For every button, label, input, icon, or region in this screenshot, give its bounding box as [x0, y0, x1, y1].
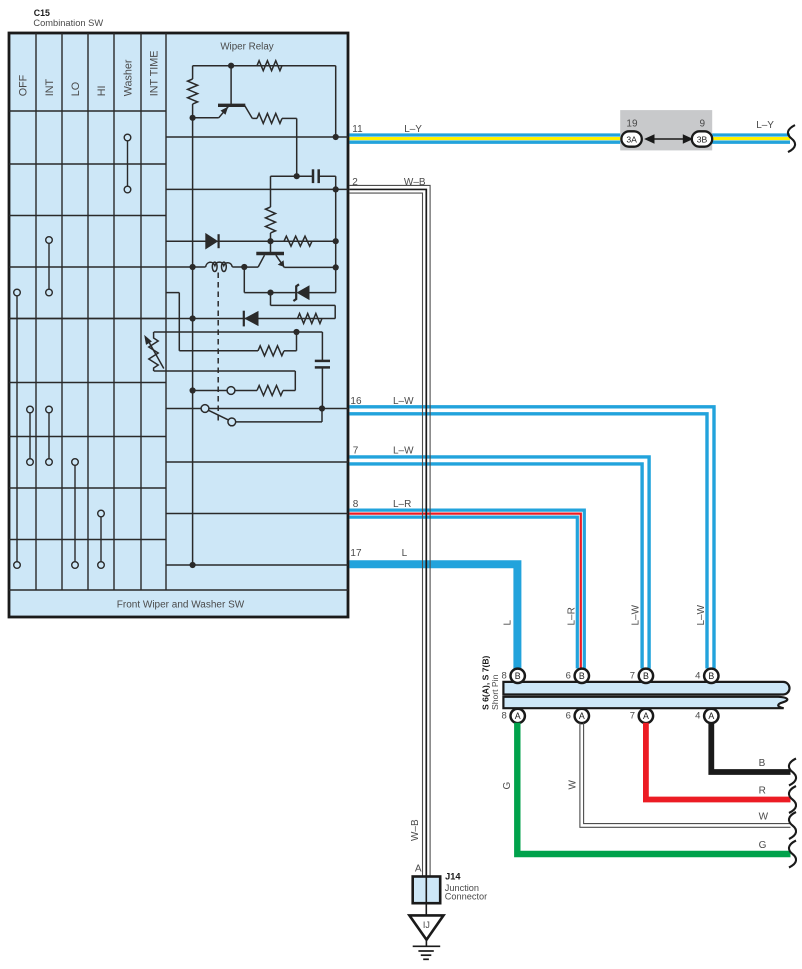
resistor relay d2-row [298, 314, 322, 324]
wire diode D1 row [166, 240, 336, 242]
svg-text:Connector: Connector [445, 891, 487, 901]
resistor relay d1-row [284, 236, 312, 246]
connector junction block gray [620, 110, 712, 150]
pin 4B terminal [704, 669, 718, 683]
transistor Q1 collector diagonal [245, 106, 257, 119]
resistor relay top [257, 61, 282, 71]
svg-text:C15: C15 [34, 8, 50, 18]
node coil right junction [241, 264, 247, 270]
svg-text:W: W [759, 812, 769, 823]
wire int contact to resistor [235, 390, 257, 392]
svg-text:Wiper Relay: Wiper Relay [220, 42, 273, 53]
wire pin 16 line [166, 408, 348, 410]
resistor relay q1-collector [257, 113, 282, 123]
svg-text:8: 8 [353, 499, 359, 510]
transistor Q2 base lead [270, 241, 272, 253]
wire vert resistor bottom lead [270, 233, 272, 241]
inductor relay coil [206, 262, 233, 271]
connector terminal 3A [621, 131, 641, 146]
wire var-res top line [154, 331, 323, 333]
svg-text:Combination SW: Combination SW [33, 18, 103, 28]
ground symbol [413, 940, 441, 960]
contact LO position [74, 462, 76, 565]
node D1 row right junction [333, 238, 339, 244]
svg-text:L–R: L–R [566, 607, 577, 625]
wire pin 11 line [166, 136, 348, 138]
arrow pair connector [644, 134, 693, 144]
wire var-res bottom line [154, 371, 296, 391]
break symbol G end [789, 841, 796, 868]
switch table row lines [9, 111, 166, 540]
node D2 row bus junction [190, 315, 196, 321]
wire L-W pin7 [350, 457, 650, 669]
transistor Q2 emitter lead [276, 255, 336, 267]
wire dashed relay link [217, 273, 219, 422]
resistor relay intermittent [257, 386, 283, 396]
svg-text:OFF: OFF [18, 74, 30, 96]
wire J14 to IJ [425, 903, 427, 915]
node pin11 junction [333, 134, 339, 140]
wire coil row left [166, 266, 206, 268]
wire int resistor lead [283, 390, 295, 392]
wire pin 8 line [166, 513, 348, 515]
wire relay top rail [193, 65, 336, 67]
node zener left junction [267, 290, 273, 296]
switch table label row line [9, 589, 348, 591]
svg-text:INT: INT [44, 79, 56, 97]
svg-text:L–R: L–R [393, 499, 411, 510]
svg-text:2: 2 [352, 177, 358, 188]
svg-text:W: W [568, 780, 579, 790]
ground IJ triangle [409, 915, 443, 939]
svg-text:A: A [708, 711, 714, 721]
wire R red [646, 723, 791, 800]
svg-text:B: B [579, 671, 585, 681]
wire pin 2 line [166, 188, 348, 190]
connector J14 box [413, 877, 441, 904]
svg-text:LO: LO [70, 82, 82, 96]
pin 4A terminal [704, 709, 718, 723]
wire timing res to node [284, 332, 297, 351]
svg-text:6: 6 [566, 671, 571, 682]
svg-text:7: 7 [630, 711, 635, 722]
wire W-B [350, 185, 431, 876]
busbar short pin [503, 682, 789, 708]
node Q2 emitter junction [333, 264, 339, 270]
svg-text:A: A [643, 711, 649, 721]
svg-text:L–Y: L–Y [756, 120, 774, 131]
wire pin 7 line [166, 461, 348, 463]
break symbol R end [789, 786, 796, 813]
contact OFF-INT pair left [29, 410, 31, 463]
switch table relay boundary [165, 33, 167, 590]
svg-text:L: L [502, 620, 513, 626]
pin 6A terminal [575, 709, 589, 723]
wire L-W pin16 [350, 407, 715, 669]
wire q2 to zener [244, 267, 270, 293]
resistor relay vertical [266, 207, 276, 233]
pin 7B terminal [639, 669, 653, 683]
break symbol L-Y end [788, 125, 795, 152]
wire L-Y [350, 135, 791, 142]
capacitor C1 [297, 169, 336, 189]
connector terminal 3B [692, 131, 712, 146]
svg-text:R: R [759, 786, 766, 797]
svg-text:L: L [402, 548, 408, 559]
contact Washer position [127, 138, 129, 190]
contact HI position [100, 514, 102, 566]
transistor Q2 collector diagonal [244, 255, 264, 267]
wire W white [580, 723, 791, 828]
wire B black [711, 723, 790, 772]
node pin17 bus junction [190, 562, 196, 568]
wire notch from boundary [166, 293, 258, 351]
svg-text:B: B [643, 671, 649, 681]
svg-text:L–W: L–W [393, 446, 414, 457]
node bus top junction [190, 115, 196, 121]
svg-text:Short Pin: Short Pin [490, 674, 500, 710]
svg-text:J14: J14 [445, 872, 461, 882]
wire left resistor top lead [192, 66, 194, 79]
contact INT position lower [48, 410, 50, 463]
svg-text:19: 19 [626, 119, 638, 130]
wire q1 resistor to cap corner [282, 118, 297, 176]
column labels OFF INT LO HI Washer INT TIME [18, 51, 161, 97]
pin 6B terminal [575, 669, 589, 683]
svg-text:B: B [515, 671, 521, 681]
svg-text:17: 17 [350, 548, 362, 559]
diode D1 [205, 233, 218, 250]
pin 8B terminal [511, 669, 525, 683]
svg-text:7: 7 [353, 446, 359, 457]
svg-text:L–W: L–W [696, 604, 707, 625]
transistor Q1 base bar [218, 104, 245, 107]
wire pin 17 line [166, 564, 348, 566]
svg-text:4: 4 [695, 711, 700, 722]
diode D2 [244, 311, 259, 327]
svg-text:INT TIME: INT TIME [149, 51, 161, 97]
wire top-right drop [335, 66, 337, 137]
break symbol W end [789, 812, 796, 839]
svg-text:3A: 3A [626, 134, 637, 144]
svg-text:4: 4 [695, 671, 700, 682]
node int row bus junction [190, 387, 196, 393]
svg-text:B: B [708, 671, 714, 681]
node pin2 junction [333, 186, 339, 192]
transistor Q1 collector lead [230, 66, 232, 106]
pin 7A terminal [639, 709, 653, 723]
node D1 row junction [267, 238, 273, 244]
svg-text:W–B: W–B [410, 819, 421, 841]
svg-text:HI: HI [96, 85, 108, 96]
resistor relay left [188, 79, 198, 104]
node top rail junction [228, 63, 234, 69]
break symbol B end [789, 759, 796, 786]
zener diode ZD1 [271, 284, 336, 301]
resistor relay timing [258, 346, 284, 356]
wire left resistor bottom lead [192, 104, 194, 118]
svg-text:9: 9 [700, 119, 706, 130]
node cap C1 left junction [294, 173, 300, 179]
wire coil to q2 [232, 266, 244, 268]
wire relay bus vertical [192, 118, 194, 565]
svg-text:7: 7 [630, 671, 635, 682]
wire zener step [271, 293, 336, 319]
wire cap to resistor R3 link [271, 176, 297, 207]
svg-text:L–Y: L–Y [404, 124, 422, 135]
wire L pin17 [350, 564, 518, 668]
transistor Q1 emitter lead [193, 107, 229, 118]
node pin16 cap junction [319, 405, 325, 411]
switch table column lines [36, 33, 141, 590]
svg-text:Front Wiper and Washer SW: Front Wiper and Washer SW [117, 600, 245, 611]
wire G green [517, 723, 790, 854]
capacitor C2 [315, 332, 330, 409]
wire diode D2 row [9, 318, 335, 320]
svg-text:G: G [502, 782, 513, 790]
svg-text:L–W: L–W [631, 604, 642, 625]
contact intermittent point [227, 387, 235, 395]
wire L-R pin8 [350, 510, 585, 668]
svg-text:B: B [759, 758, 766, 769]
connector C15 combination switch box [9, 33, 348, 617]
variable resistor VR1 [144, 332, 164, 371]
svg-text:8: 8 [502, 671, 507, 682]
wire right bus drop [335, 189, 337, 292]
svg-text:G: G [759, 840, 767, 851]
svg-text:A: A [515, 711, 521, 721]
switch relay arm [201, 405, 322, 426]
node timing junction [293, 329, 299, 335]
svg-text:W–B: W–B [404, 177, 426, 188]
svg-text:A: A [415, 863, 422, 874]
wire int contact row [193, 390, 228, 392]
svg-text:11: 11 [352, 124, 363, 135]
svg-text:6: 6 [566, 711, 571, 722]
svg-text:8: 8 [502, 711, 507, 722]
svg-text:IJ: IJ [423, 920, 430, 930]
svg-text:Washer: Washer [123, 59, 135, 96]
svg-text:3B: 3B [697, 134, 708, 144]
contact OFF position tall [16, 293, 18, 566]
svg-text:A: A [579, 711, 585, 721]
node coil row bus junction [190, 264, 196, 270]
pin 8A terminal [511, 709, 525, 723]
transistor Q2 base bar [256, 252, 284, 255]
contact INT position upper [48, 240, 50, 293]
